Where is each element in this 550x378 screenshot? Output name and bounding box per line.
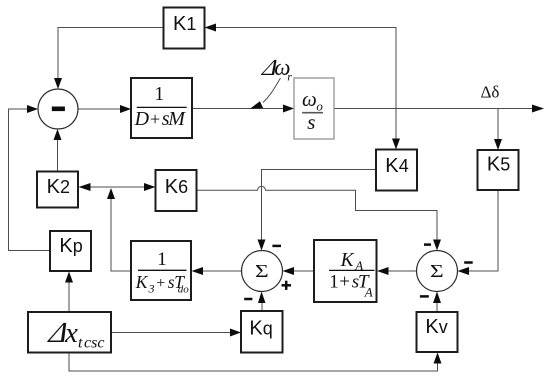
svg-text:r: r <box>287 69 292 83</box>
svg-text:M: M <box>167 108 186 130</box>
block 1/(K3+sTdo) <box>131 241 191 300</box>
svg-text:csc: csc <box>84 335 104 352</box>
svg-text:K: K <box>249 318 263 340</box>
gain block Kq <box>241 311 283 353</box>
wire main delta line to right edge <box>334 105 544 113</box>
svg-text:A: A <box>364 284 373 299</box>
svg-text:K: K <box>340 250 355 271</box>
wire K4 output to Sigma1 top <box>258 170 377 251</box>
svg-text:K: K <box>59 235 73 257</box>
gain block K6 <box>156 170 197 211</box>
svg-text:1: 1 <box>157 249 167 270</box>
summing junction S1 (minus) <box>38 89 78 129</box>
input block Delta x_tcsc <box>28 312 111 353</box>
wire Delta x_tcsc up into Kp bottom <box>65 272 73 313</box>
exciter block KA/(1+sTA) <box>314 240 377 302</box>
svg-text:K: K <box>487 154 501 176</box>
svg-text:t: t <box>78 335 83 352</box>
wire S1 output to 1/(D+sM) <box>78 105 131 113</box>
integrator block omega_o/s <box>294 78 334 139</box>
sign minus at Sigma1 bottom <box>244 298 252 301</box>
svg-text:6: 6 <box>178 177 188 197</box>
wire delta tap up to K1 input <box>205 24 397 109</box>
svg-text:x: x <box>64 317 78 349</box>
wire K6 output over hop to Sigma2 top <box>197 186 442 250</box>
svg-text:v: v <box>439 317 448 337</box>
svg-text:K: K <box>47 176 61 198</box>
sign minus at Sigma2 bottom <box>420 295 429 298</box>
label Delta omega_r with leader arrow <box>250 55 292 109</box>
svg-text:3: 3 <box>148 281 155 295</box>
svg-text:p: p <box>73 236 83 256</box>
sign minus at Sigma2 top <box>424 243 431 246</box>
svg-text:K: K <box>425 316 439 338</box>
wire 1/(K3+sTdo) output up to K2-K6 node <box>107 188 131 271</box>
wire delta tap down to K5 input <box>494 109 502 151</box>
summing junction Sigma1 (field circuit) <box>242 251 283 292</box>
wire K1 output to summing junction S1 <box>54 28 164 90</box>
svg-text:K: K <box>165 176 179 198</box>
wire node to K2 and K6 (double arrows) <box>79 183 156 191</box>
sign plus at Sigma1 right <box>282 281 292 290</box>
wire Sigma1 output to 1/(K3+sTdo) input <box>192 267 242 275</box>
gain block K2 <box>37 172 78 208</box>
svg-text:2: 2 <box>60 177 70 197</box>
label Delta delta <box>481 83 500 102</box>
gain block Kp <box>50 231 91 271</box>
wire Kp output feedback loop into S1 left <box>9 105 51 251</box>
summing junction Sigma2 (voltage) <box>417 251 458 292</box>
svg-text:do: do <box>178 284 190 296</box>
svg-text:ω: ω <box>302 87 317 111</box>
sign minus at Sigma1 top <box>272 245 281 248</box>
svg-text:4: 4 <box>399 156 409 176</box>
svg-text:s: s <box>307 110 315 134</box>
wire 1/(D+sM) output to omega_o/s <box>192 105 294 113</box>
svg-text:D: D <box>134 108 150 130</box>
svg-text:1: 1 <box>154 84 164 105</box>
svg-text:+: + <box>156 275 165 292</box>
wire K5 output down and into Sigma2 right <box>458 190 499 275</box>
svg-text:Σ: Σ <box>255 263 269 282</box>
svg-text:Σ: Σ <box>430 263 444 282</box>
wire KA output to Sigma1 right <box>283 267 315 275</box>
wire bottom feedback Delta x_tcsc to Kv bottom <box>69 353 442 372</box>
svg-text:1: 1 <box>186 14 196 34</box>
wire Kq output up into Sigma1 bottom <box>258 292 266 312</box>
gain block Kv <box>417 312 458 352</box>
wire K2 output up into S1 bottom <box>54 129 62 172</box>
sign minus at Sigma2 right <box>464 261 473 264</box>
wire delta tap down to K4 input <box>392 109 400 150</box>
gain block K1 <box>164 8 205 49</box>
svg-text:o: o <box>316 98 323 113</box>
svg-text:K: K <box>385 155 399 177</box>
svg-text:q: q <box>263 319 273 339</box>
svg-text:Δδ: Δδ <box>481 83 500 102</box>
wire Sigma2 output to KA input <box>377 267 417 275</box>
svg-text:+: + <box>150 109 160 129</box>
svg-text:K: K <box>173 13 187 35</box>
svg-text:5: 5 <box>500 155 510 175</box>
wire Delta x_tcsc output to Kq input <box>111 329 241 337</box>
gain block K4 <box>376 150 417 191</box>
gain block K5 <box>478 150 519 190</box>
svg-text:1: 1 <box>329 272 339 293</box>
wire Kv output up into Sigma2 bottom <box>433 292 441 313</box>
block 1/(D+sM) <box>131 78 192 138</box>
svg-text:+: + <box>339 272 350 293</box>
svg-text:K: K <box>135 272 149 292</box>
